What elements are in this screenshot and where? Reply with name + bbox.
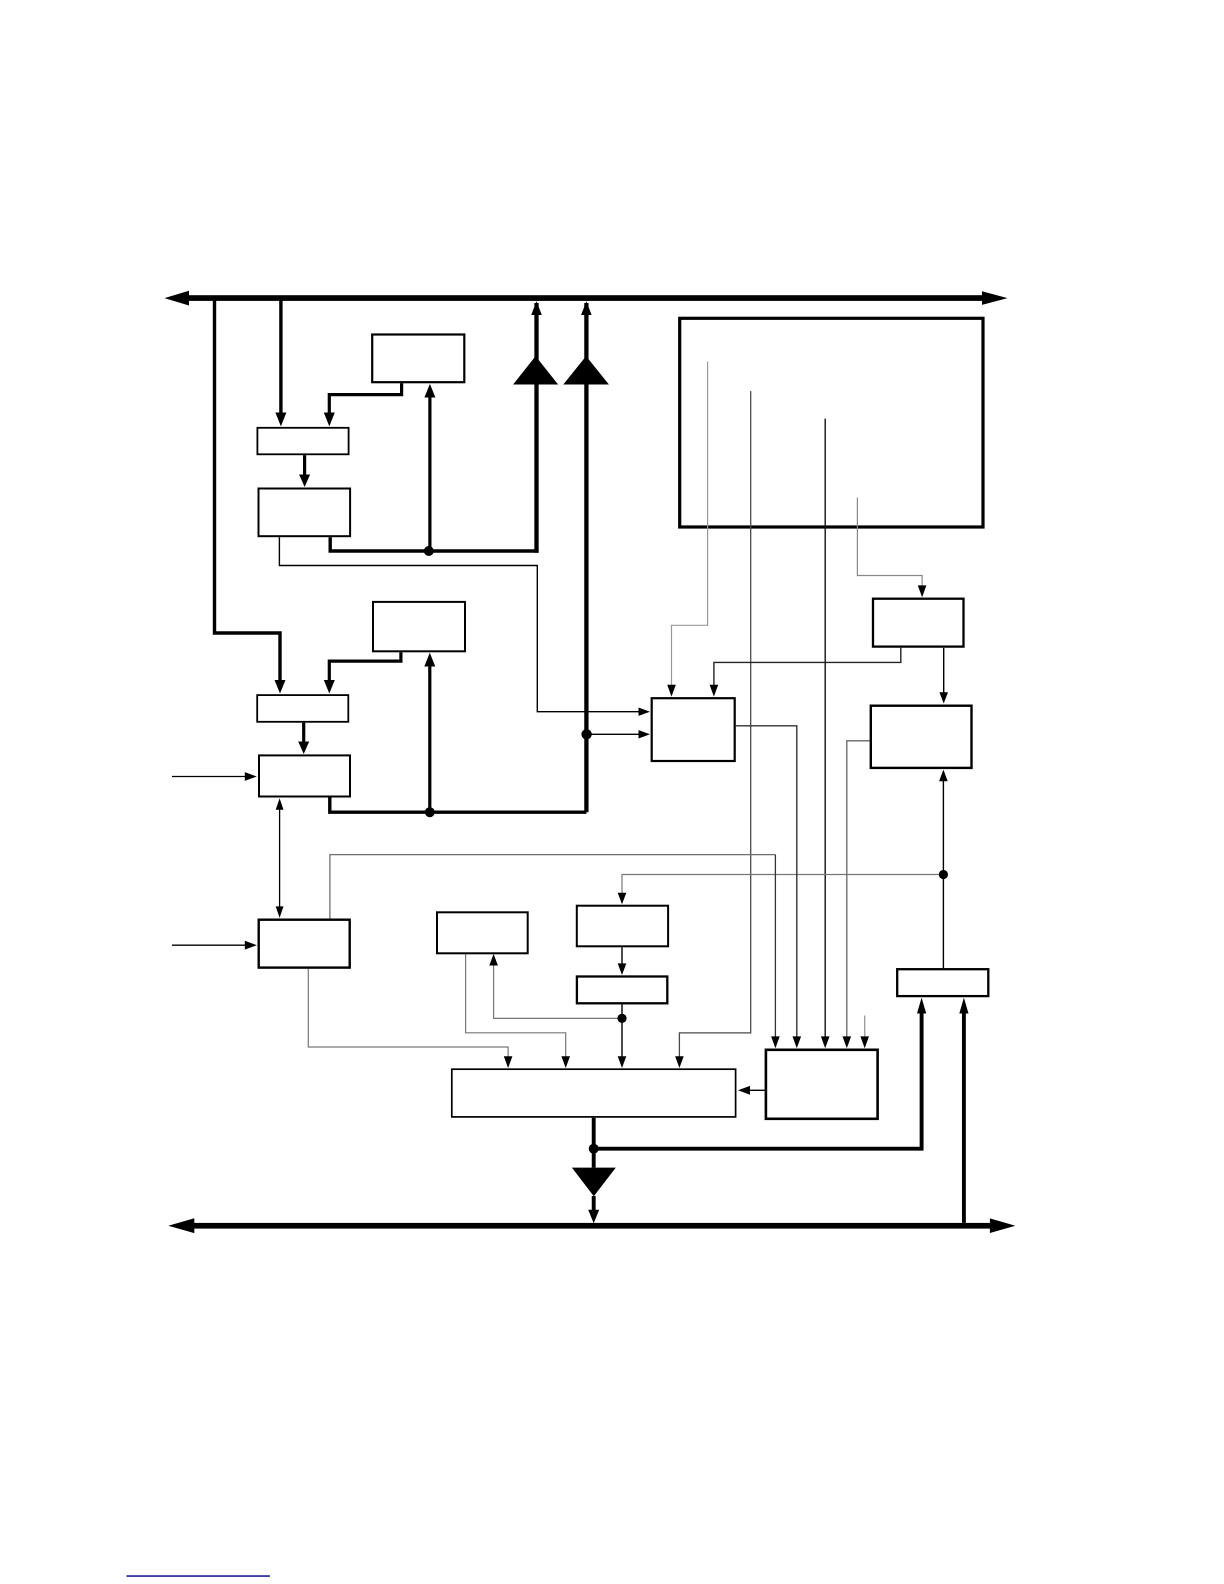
wire vertical from status box top up into mid right box bottom [939, 770, 948, 969]
box A1 [372, 335, 464, 383]
wire thick up into box B1 bottom [424, 653, 435, 812]
box C2 [577, 977, 667, 1004]
box A3 [259, 489, 351, 537]
wire thick horizontal from box A3 bottom to left driver [330, 537, 538, 551]
long box [452, 1069, 736, 1117]
wire box B2 to box B3 [298, 723, 309, 754]
junction [424, 546, 434, 556]
OR box [652, 698, 735, 761]
wire big-box line 3 to decode box [821, 419, 830, 1049]
wire control box to long box arrow [738, 1086, 765, 1095]
wire bus down-arrow to upper-left block [275, 298, 286, 426]
mid right box [871, 706, 972, 768]
wire gray stub into control box top [860, 1016, 869, 1049]
junction [939, 870, 948, 879]
box D1 [259, 920, 350, 968]
big box (top right) [680, 318, 983, 527]
wire mid-right box left side to control box top [843, 741, 870, 1048]
wire box A2 to box A3 [299, 455, 310, 487]
top bus [164, 291, 1007, 306]
wire long box bottom to bus driver down [572, 1118, 616, 1224]
box A2 [257, 428, 348, 455]
wire thick from junction right up into status box bottom [594, 998, 927, 1149]
wire gray from box C0 bottom to long box [466, 954, 570, 1068]
wire from junction to OR box left lower [587, 730, 650, 738]
wire thick from bottom bus up into status box bottom [959, 998, 968, 1223]
wire thick up into box A1 bottom [424, 384, 435, 551]
status box [897, 969, 988, 996]
box C1 [577, 906, 668, 947]
wire gray from box D1 bottom to long box [308, 969, 512, 1068]
box B2 [257, 695, 348, 722]
wire thick elbow from box A1 bottom into box A2 top [324, 383, 402, 426]
wire bus tap to mid-left block [215, 298, 286, 694]
wire gray from junction left down into box C1 top [618, 875, 944, 905]
wire big-box line 2 elbow to long box [675, 391, 751, 1068]
footer link rule [127, 1575, 270, 1577]
junction below box C2 [617, 1014, 626, 1023]
wire big-box line 4 to right small box [857, 498, 926, 598]
wire thin from box A3 bottom to OR box left upper [279, 537, 650, 716]
wire gray from box D1 top elbow to control box top [330, 855, 780, 1049]
wire big-box line 1 to OR box top [667, 362, 707, 697]
box B3 [259, 755, 350, 796]
bus driver triangle left with lines [513, 301, 558, 553]
wire input arrow into box B3 left [172, 772, 257, 781]
wire gray branch from junction up into box C0 bottom [489, 954, 622, 1019]
wire box C1 to box C2 [618, 947, 627, 975]
wire from right small box bottom-left to OR box top [710, 648, 901, 697]
wire right small box to mid right box [939, 648, 948, 704]
wire input arrow into box D1 left [172, 941, 257, 950]
junction [425, 807, 435, 817]
box B1 [373, 602, 465, 651]
right small box [873, 599, 964, 647]
bottom bus [168, 1218, 1015, 1233]
wire double arrow between box B3 and box D1 [276, 798, 284, 918]
wire box C2 down to long box [618, 1004, 627, 1068]
wire OR box output to decode-left line [736, 726, 801, 1048]
junction [589, 1144, 599, 1154]
wire thick horizontal from box B3 bottom to right driver [330, 798, 587, 813]
junction on right driver line [581, 729, 591, 739]
bus driver triangle right with lines [563, 301, 609, 812]
control box [766, 1050, 878, 1119]
wire thick elbow from box B1 bottom into box B2 top [324, 652, 401, 693]
box C0 [437, 912, 528, 953]
